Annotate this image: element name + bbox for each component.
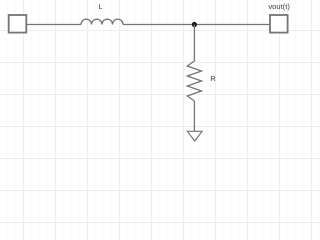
- terminal (input port) square: [9, 15, 27, 33]
- wire from junction down to resistor: [193, 25, 195, 62]
- junction node dot: [192, 22, 197, 27]
- terminal (output port) square vout(t): [270, 15, 288, 33]
- wire from inductor to output square: [123, 24, 270, 26]
- inductor L: [81, 19, 123, 24]
- svg-text:vout(t): vout(t): [268, 2, 290, 11]
- svg-text:R: R: [210, 74, 216, 83]
- resistor R zigzag: [187, 61, 201, 101]
- wire from input square to inductor: [26, 24, 81, 26]
- ground symbol: [187, 131, 202, 141]
- wire from resistor to ground: [193, 101, 195, 131]
- svg-text:L: L: [98, 2, 102, 11]
